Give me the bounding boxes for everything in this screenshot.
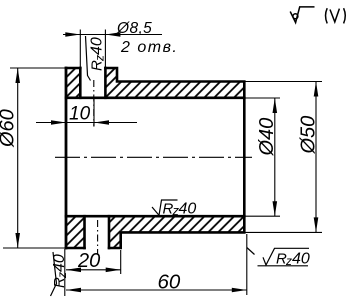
svg-text:Ø50: Ø50 — [298, 116, 320, 155]
svg-text:40: 40 — [179, 201, 197, 218]
svg-text:40: 40 — [89, 37, 106, 55]
svg-text:Ø60: Ø60 — [0, 109, 19, 148]
svg-text:2 отв.: 2 отв. — [120, 39, 178, 56]
svg-text:20: 20 — [77, 250, 100, 272]
svg-text:z: z — [285, 254, 292, 268]
svg-text:z: z — [55, 272, 69, 279]
svg-text:Ø8,5: Ø8,5 — [116, 20, 152, 37]
svg-text:10: 10 — [69, 104, 91, 125]
svg-text:40: 40 — [51, 254, 68, 272]
svg-text:60: 60 — [158, 271, 181, 294]
svg-text:40: 40 — [292, 251, 310, 268]
svg-text:Ø40: Ø40 — [256, 118, 278, 157]
svg-text:z: z — [93, 55, 107, 62]
